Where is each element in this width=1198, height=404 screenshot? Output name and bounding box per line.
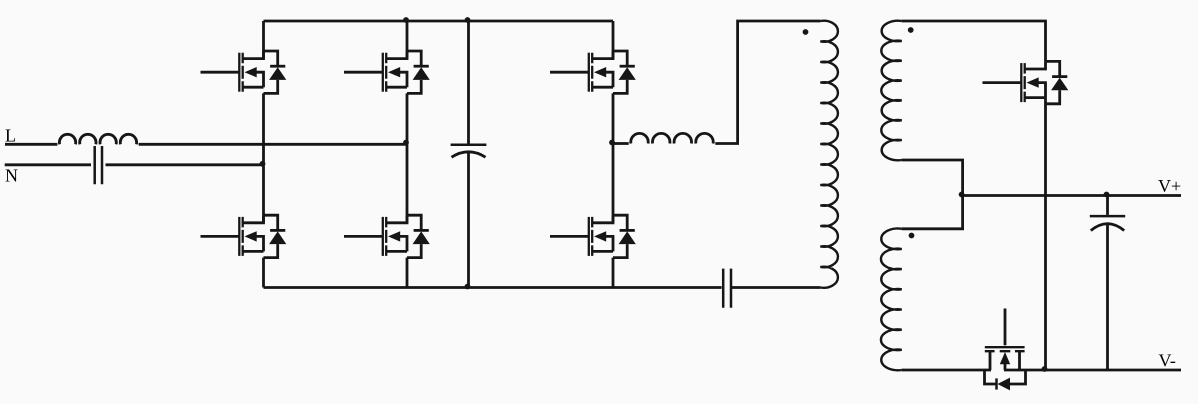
Q5 body arrow	[594, 67, 606, 77]
wire N to bridge	[106, 163, 264, 166]
wire center tap	[902, 160, 963, 229]
SR1 body arrow	[1027, 77, 1039, 87]
svg-text:V-: V-	[1159, 351, 1176, 371]
transistor Q6 (leg3 low side)	[550, 215, 636, 257]
Q5 source lead	[592, 86, 613, 89]
wire leg2 mid	[406, 93, 409, 222]
wire leg3 drain drop	[612, 21, 615, 59]
Q4 body arrow	[388, 231, 400, 241]
wire leg3 mid	[612, 93, 615, 222]
transistor SR2 channel	[985, 350, 1025, 352]
Q3 gate bar	[382, 53, 384, 92]
transistor SR2 gate lead	[1004, 309, 1007, 346]
Q2 gate bar	[238, 217, 240, 256]
Q1 drain lead	[243, 51, 264, 59]
Q1 gate bar	[238, 53, 240, 92]
junction C_out / V+	[1104, 192, 1110, 198]
wire N input	[5, 163, 91, 166]
Q4 body diode	[407, 215, 421, 230]
capacitor C_bus bottom lead	[467, 152, 470, 288]
wire top DC rail	[264, 20, 614, 23]
Q5 drain lead	[592, 51, 613, 59]
capacitor C_bus	[451, 144, 487, 147]
Q3 gate lead	[344, 71, 383, 74]
wire V- rail left	[902, 369, 991, 372]
Q6 body diode	[613, 215, 627, 230]
transistor SR2 (sync rectifier low, rotated)	[985, 309, 1026, 391]
Q1 body arrow	[245, 67, 257, 77]
wire leg3 mid to Lr	[613, 142, 629, 145]
junction leg3 midpoint	[609, 140, 615, 146]
Q3 source lead	[386, 86, 407, 89]
transistor SR2 source lead	[1018, 351, 1021, 370]
transistor Q2 (leg1 low side)	[201, 215, 287, 257]
wire leg1 bottom	[262, 258, 265, 288]
Q1 source lead	[243, 86, 264, 89]
wire secondary upper to SR1	[902, 21, 1046, 61]
capacitor C_bus top lead	[467, 21, 470, 144]
Q2 source lead	[243, 250, 264, 253]
transistor Q3 (leg2 high side)	[344, 51, 430, 93]
transistor Q4 (leg2 low side)	[344, 215, 430, 257]
Q1 body diode	[264, 51, 278, 66]
junction center tap / V+	[959, 192, 965, 198]
wire V- rail right	[1004, 369, 1181, 372]
junction L / leg2 midpoint	[403, 140, 409, 146]
capacitor C_out	[1106, 196, 1109, 215]
Q4 gate bar	[382, 217, 384, 256]
transformer T1 secondary winding upper	[881, 21, 901, 161]
transistor SR2 drain lead	[989, 351, 992, 370]
Q4 source lead	[386, 250, 407, 253]
Q6 gate lead	[550, 235, 589, 238]
transistor Q5 (leg3 high side)	[550, 51, 636, 93]
Q1 gate lead	[201, 71, 240, 74]
Q3 drain lead	[386, 51, 407, 59]
transistor SR2 body diode	[985, 370, 997, 384]
SR1 gate bar	[1020, 63, 1022, 102]
SR1 body diode	[1046, 61, 1060, 76]
junction top rail / C_bus	[465, 17, 471, 23]
Q3 body diode	[407, 51, 421, 66]
Q2 channel	[242, 217, 244, 256]
SR1 channel	[1024, 63, 1026, 102]
wire V+ rail	[963, 194, 1181, 197]
Q6 source lead	[592, 250, 613, 253]
Q5 gate bar	[588, 53, 590, 92]
Q4 channel	[385, 217, 387, 256]
Q2 body arrow	[245, 231, 257, 241]
capacitor Cr (resonant, series in return)	[723, 269, 731, 308]
Q1 channel	[242, 53, 244, 92]
transistor SR2 body arrow	[1000, 352, 1010, 364]
transistor SR1 (sync rectifier high)	[983, 61, 1069, 103]
Q3 body arrow	[388, 67, 400, 77]
junction bottom rail / C_bus	[465, 284, 471, 290]
svg-text:L: L	[5, 126, 16, 146]
wire leg3 bottom	[612, 258, 615, 288]
Q4 drain lead	[386, 215, 407, 223]
Q2 drain lead	[243, 215, 264, 223]
svg-text:V+: V+	[1158, 176, 1181, 196]
Q4 gate lead	[344, 235, 383, 238]
Q6 channel	[591, 217, 593, 256]
Q5 channel	[591, 53, 593, 92]
junction N / leg1 midpoint	[260, 161, 266, 167]
Q5 body diode	[613, 51, 627, 66]
wire leg1 mid	[262, 93, 265, 222]
phase dot primary	[803, 29, 809, 35]
transformer T1 primary winding	[820, 21, 838, 288]
SR1 drain lead	[1025, 61, 1046, 69]
Q6 gate bar	[588, 217, 590, 256]
transistor SR2 gate bar	[985, 346, 1025, 348]
svg-text:N: N	[5, 166, 18, 186]
phase dot secondary lower	[909, 233, 915, 239]
Q2 body diode	[264, 215, 278, 230]
wire Cr to transformer return	[731, 286, 821, 289]
junction top rail / leg2	[403, 17, 409, 23]
Q6 body arrow	[594, 231, 606, 241]
wire L input	[5, 143, 57, 146]
inductor L_EMI (choke on L line)	[59, 134, 136, 144]
wire leg1 drain drop	[262, 21, 265, 59]
Q5 gate lead	[550, 71, 589, 74]
wire leg2 bottom	[406, 258, 409, 288]
wire SR1 source to V- rail	[1044, 98, 1047, 370]
junction SR1 / V- rail	[1042, 366, 1048, 372]
phase dot secondary upper	[908, 27, 914, 33]
SR1 source lead	[1025, 96, 1046, 99]
transistor Q1 (leg1 high side)	[201, 51, 287, 93]
wire L to bridge	[139, 143, 407, 146]
wire bottom DC rail	[264, 286, 722, 289]
wire leg2 drain drop	[406, 21, 409, 59]
transformer T1 secondary winding lower	[881, 229, 902, 371]
capacitor C_EMI (series in N line)	[95, 146, 102, 184]
SR1 gate lead	[983, 81, 1022, 84]
Q3 channel	[385, 53, 387, 92]
inductor Lr (resonant)	[631, 133, 713, 143]
Q2 gate lead	[201, 235, 240, 238]
Q6 drain lead	[592, 215, 613, 223]
wire Lr to transformer	[715, 21, 820, 144]
